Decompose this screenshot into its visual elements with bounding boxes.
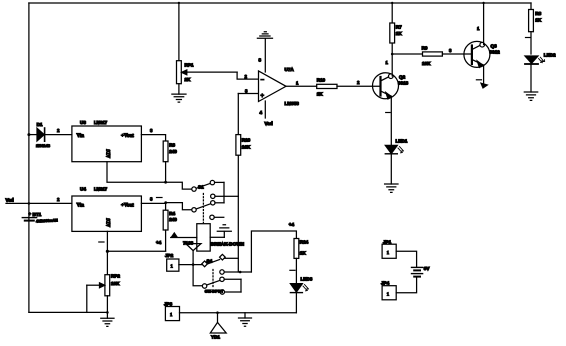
- svg-text:1: 1: [171, 264, 174, 269]
- switch S1 pole 1: [192, 187, 196, 191]
- svg-text:10K: 10K: [422, 61, 431, 66]
- node junction dot: [106, 311, 109, 314]
- svg-text:1: 1: [296, 81, 299, 86]
- battery BT1: [22, 217, 36, 219]
- wire R4 down: [165, 230, 167, 251]
- svg-text:+Vout: +Vout: [121, 203, 134, 209]
- svg-text:+Vout: +Vout: [121, 133, 134, 139]
- svg-text:Vin: Vin: [77, 133, 85, 139]
- svg-text:10K: 10K: [242, 145, 251, 150]
- svg-text:LED1: LED1: [396, 139, 408, 144]
- wire JP2 to switch: [179, 264, 202, 266]
- ground flag (inverted) at detector: [217, 225, 231, 232]
- dotted gang link: [212, 270, 214, 289]
- potentiometer RP2: [105, 275, 110, 296]
- svg-text:U4: U4: [80, 187, 86, 192]
- wire to R9: [392, 53, 422, 55]
- svg-text:Q2: Q2: [399, 75, 406, 80]
- svg-text:SW-DPDT: SW-DPDT: [205, 288, 224, 293]
- node junction dot: [178, 2, 180, 4]
- node ADJ junction arrow: [107, 250, 165, 252]
- node junction dot: [482, 2, 484, 4]
- ground below LED2: [524, 92, 537, 100]
- svg-text:R8: R8: [535, 11, 541, 16]
- svg-text:9013: 9013: [398, 81, 409, 86]
- power bar symbol: [257, 32, 272, 38]
- svg-text:D1: D1: [37, 122, 43, 127]
- diode D1: [37, 128, 44, 141]
- switch S1 throw row3: [211, 201, 215, 205]
- contact C: [220, 290, 224, 294]
- svg-text:Q3: Q3: [491, 44, 498, 49]
- svg-text:ADJ: ADJ: [107, 218, 112, 227]
- wire Q3 emitter to flag: [483, 65, 485, 87]
- node junction dot: [391, 2, 393, 4]
- svg-text:U7A: U7A: [285, 67, 295, 72]
- svg-text:1K: 1K: [535, 18, 542, 23]
- svg-text:S1: S1: [198, 185, 204, 190]
- wire battery to JP4: [396, 277, 416, 293]
- resistor R10: [317, 84, 337, 88]
- contact B: [220, 277, 224, 281]
- svg-text:2K: 2K: [185, 77, 192, 82]
- svg-text:JP4: JP4: [381, 281, 390, 286]
- svg-text:LED3: LED3: [301, 277, 313, 282]
- switch S1 pole 2: [192, 208, 196, 212]
- buzzer YD1: [217, 313, 219, 323]
- rail R26 column: [237, 94, 239, 135]
- svg-text:R3: R3: [169, 143, 175, 148]
- node junction dot: [164, 181, 167, 184]
- battery BT2: [412, 266, 423, 268]
- svg-text:R10: R10: [317, 78, 326, 83]
- svg-text:3: 3: [150, 128, 153, 133]
- svg-text:240: 240: [169, 149, 177, 154]
- svg-text:4V/2000mAH: 4V/2000mAH: [36, 218, 58, 223]
- svg-text:R9: R9: [422, 46, 428, 51]
- right branch resistor R8: [530, 3, 532, 10]
- node junction dot: [192, 263, 195, 266]
- node junction dot: [239, 271, 242, 274]
- regulator U4 box: [72, 196, 141, 231]
- svg-text:LM317: LM317: [94, 187, 108, 192]
- svg-text:LM358: LM358: [285, 101, 300, 106]
- zener ZD1: [186, 244, 201, 251]
- wire LED3 to bottom rail: [295, 293, 297, 313]
- svg-text:2: 2: [357, 80, 360, 85]
- svg-text:1: 1: [387, 250, 390, 255]
- resistor R7: [391, 3, 393, 23]
- node junction dot: [27, 133, 30, 136]
- svg-text:JP1: JP1: [383, 239, 392, 244]
- svg-text:10K: 10K: [111, 281, 120, 286]
- wire to D1: [29, 134, 37, 136]
- switch S4 pole diamond: [202, 261, 208, 267]
- node junction dot: [216, 311, 219, 314]
- switch S4 pole 2: [202, 284, 206, 288]
- svg-text:JP3: JP3: [164, 301, 173, 306]
- wire R3 to ADJ line: [165, 162, 167, 183]
- wire Vad net: [6, 202, 72, 204]
- resistor R9: [423, 52, 443, 56]
- wire RP1 wiper to op-amp: [237, 72, 258, 79]
- connector JP1: [382, 244, 396, 258]
- svg-text:9012: 9012: [490, 50, 501, 55]
- wire U4 Vout: [141, 203, 165, 210]
- resistor R24: [294, 239, 299, 259]
- node junction: [391, 53, 394, 56]
- svg-text:+4: +4: [289, 222, 295, 227]
- svg-text:1: 1: [170, 312, 173, 317]
- ground on bottom net: [244, 313, 246, 318]
- svg-text:1: 1: [477, 26, 480, 31]
- transistor Q2: [373, 73, 399, 99]
- svg-text:LED2: LED2: [544, 52, 556, 57]
- svg-text:+: +: [261, 93, 265, 99]
- transistor Q3: [464, 41, 490, 67]
- wire Q3 collector: [483, 3, 485, 44]
- wire diamond to rail: [225, 257, 239, 259]
- svg-text:ADJ: ADJ: [107, 149, 112, 158]
- svg-text:YD1: YD1: [211, 335, 220, 340]
- pin mark: [99, 241, 104, 243]
- wire throw link: [223, 182, 225, 202]
- svg-text:3: 3: [449, 48, 452, 53]
- svg-text:−: −: [261, 77, 265, 83]
- svg-text:Vin: Vin: [77, 203, 85, 209]
- svg-text:1: 1: [386, 60, 389, 65]
- node junction dot Vad: [28, 202, 31, 205]
- svg-text:R24: R24: [300, 240, 309, 245]
- pin 4 power: [264, 101, 266, 118]
- svg-text:2: 2: [57, 197, 60, 202]
- svg-text:U3: U3: [80, 120, 86, 125]
- wire U3 ADJ: [107, 162, 192, 189]
- svg-text:R26: R26: [242, 137, 251, 142]
- svg-text:1N4148: 1N4148: [36, 143, 51, 148]
- wire bottom net: [180, 312, 297, 314]
- wire B-C link: [240, 279, 242, 292]
- wire RP2 bottom: [106, 296, 108, 313]
- svg-text:JP2: JP2: [165, 253, 174, 258]
- wire Q2 collector: [391, 43, 393, 76]
- svg-text:R7: R7: [396, 25, 402, 30]
- contact A: [220, 270, 224, 274]
- wire U4 Vout to pole 2: [166, 203, 192, 210]
- svg-text:LM317: LM317: [94, 120, 108, 125]
- svg-text:1K: 1K: [300, 251, 307, 256]
- svg-text:3: 3: [150, 197, 153, 202]
- svg-text:BT1: BT1: [33, 212, 42, 217]
- wire R24 to LED: [295, 258, 297, 283]
- detector U5 box: [197, 224, 210, 251]
- switch S4 throw diamond: [220, 254, 226, 260]
- wire to LED resistor: [251, 231, 296, 272]
- wire Q2 emitter down: [390, 97, 392, 146]
- svg-text:RP2: RP2: [111, 274, 120, 279]
- resistor R4: [163, 210, 168, 230]
- svg-text:8: 8: [259, 58, 262, 63]
- svg-text:4: 4: [260, 110, 263, 115]
- switch S1 throw row1: [210, 180, 214, 184]
- svg-text:3: 3: [245, 89, 248, 94]
- wire bottom-left: [29, 311, 108, 313]
- wire +input: [238, 93, 258, 95]
- power flag +4 to detector: [171, 237, 197, 239]
- svg-text:240: 240: [169, 217, 177, 222]
- op-amp U7A: [259, 71, 287, 102]
- switch S1 throw row2: [211, 194, 215, 198]
- wire top rail: [29, 2, 531, 4]
- wire LED1 to ground: [390, 154, 392, 184]
- potentiometer RP1: [178, 3, 180, 61]
- svg-text:+: +: [29, 212, 32, 217]
- pin 8 power: [264, 39, 266, 72]
- wire left rail: [28, 3, 30, 312]
- ground below LED1: [385, 184, 398, 192]
- svg-text:Vad: Vad: [6, 198, 14, 203]
- ground below RP1: [178, 84, 180, 94]
- wire LED2 to ground: [530, 65, 532, 92]
- connector JP3: [165, 307, 179, 321]
- svg-text:2: 2: [57, 128, 60, 133]
- node junction dot: [164, 201, 167, 204]
- svg-text:R4: R4: [169, 211, 175, 216]
- connector JP4: [382, 286, 396, 300]
- svg-text:3V: 3V: [424, 266, 431, 271]
- svg-text:BREAK-DOWN: BREAK-DOWN: [211, 241, 245, 246]
- svg-text:2: 2: [245, 74, 248, 79]
- svg-text:1K: 1K: [317, 92, 324, 97]
- resistor R3: [163, 141, 168, 162]
- connector JP2: [167, 259, 179, 271]
- regulator U3 box: [72, 126, 141, 162]
- node junction dot: [106, 250, 109, 253]
- op-amp output: [286, 85, 317, 87]
- svg-text:+4: +4: [156, 240, 162, 245]
- ground below RP2: [106, 312, 108, 318]
- svg-text:1K: 1K: [396, 31, 403, 36]
- wire JP1 to battery: [396, 251, 416, 267]
- svg-text:Vad: Vad: [265, 121, 273, 126]
- ganged switch dotted link: [202, 194, 204, 223]
- resistor R26: [236, 135, 241, 156]
- svg-text:RP1: RP1: [185, 63, 194, 68]
- wire U3 Vout: [141, 135, 165, 141]
- switch S1 throw row5: [210, 215, 214, 219]
- wire U4 ADJ: [106, 231, 108, 274]
- wire detector right: [210, 236, 224, 238]
- svg-text:1: 1: [387, 291, 390, 296]
